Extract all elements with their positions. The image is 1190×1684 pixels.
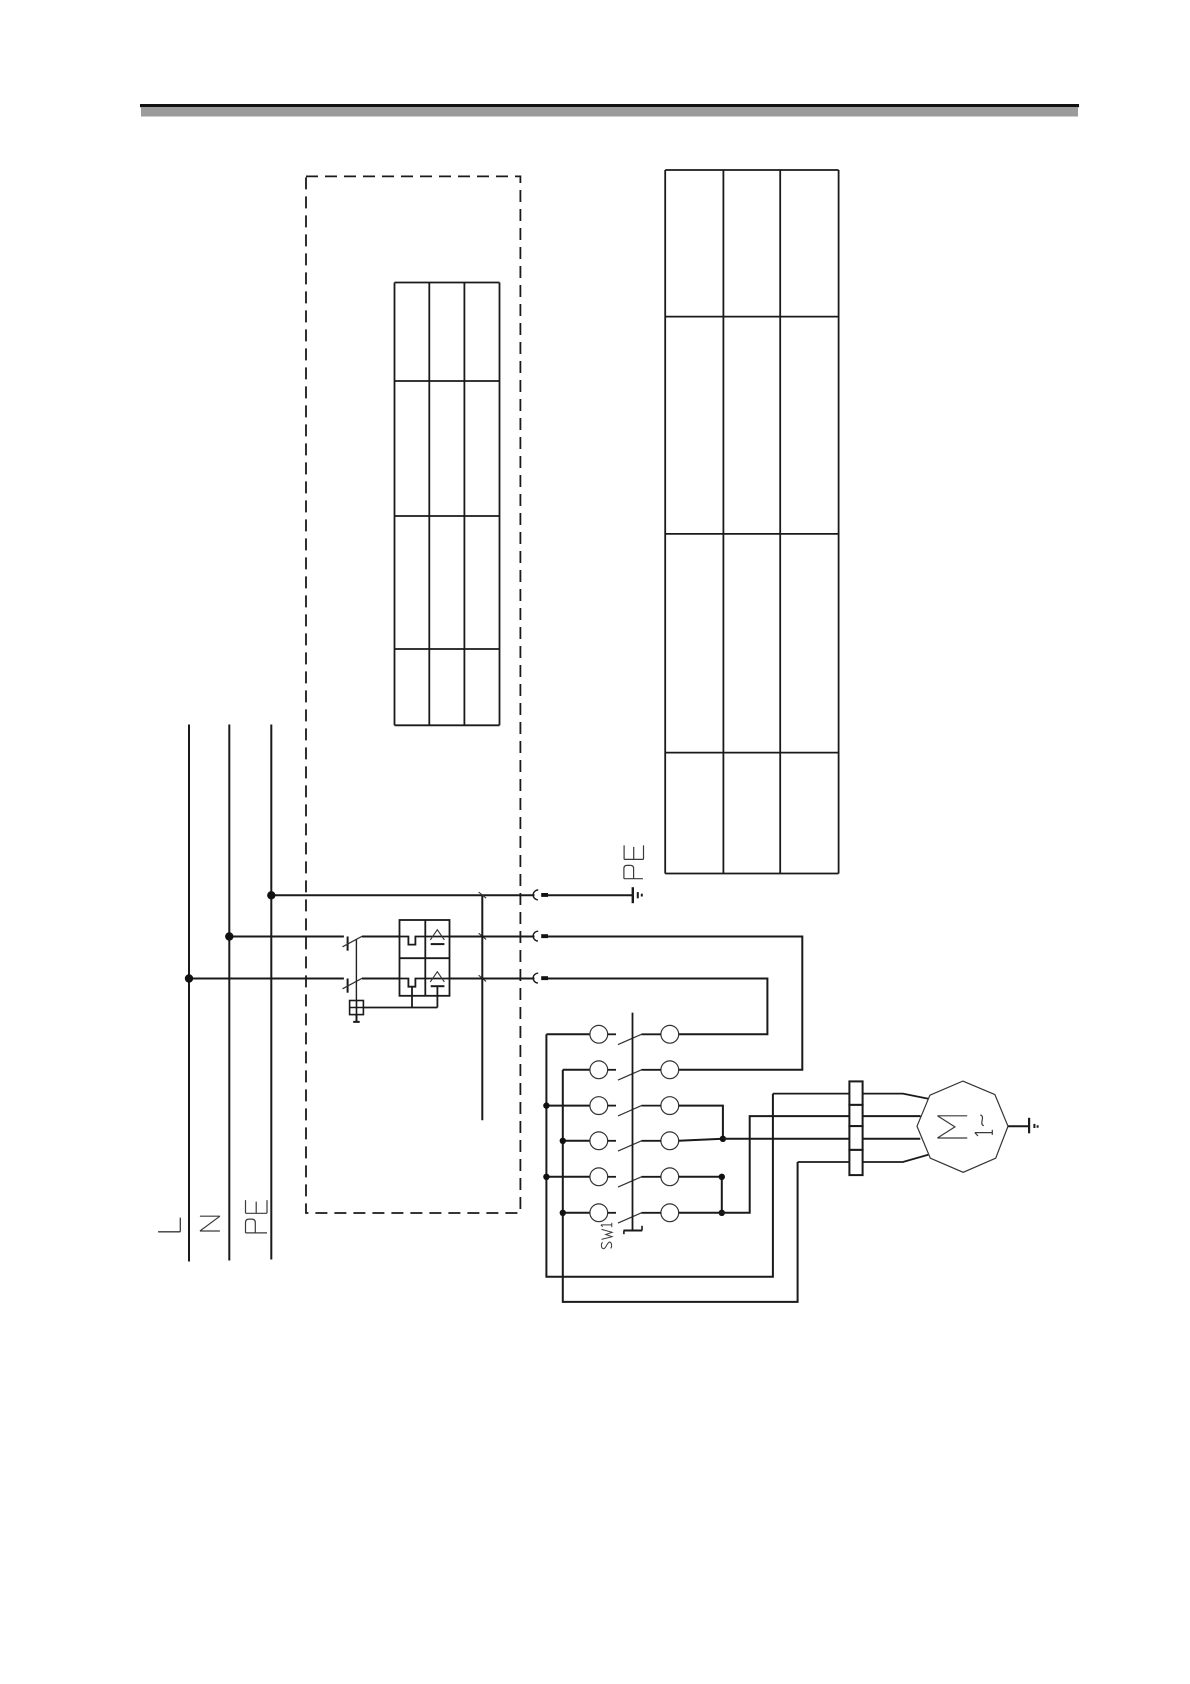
- label L: [158, 1218, 180, 1232]
- bus N: [228, 725, 230, 1261]
- label M: [937, 1116, 967, 1138]
- ground symbol PE: [633, 887, 642, 903]
- wire L through right cell: [425, 978, 449, 980]
- RCD sensing box: [350, 1001, 364, 1015]
- connector on PE wire: [533, 890, 548, 900]
- wire N contact to breaker: [362, 936, 400, 938]
- junction tick PE spur top: [479, 892, 487, 898]
- connector on N wire: [533, 931, 548, 941]
- switch contact L pole: [343, 978, 363, 992]
- label PE ground: [624, 845, 644, 878]
- junction tick N crossing: [479, 933, 487, 939]
- terminal table TB1 inside enclosure: [395, 283, 500, 726]
- SW1 row4 stub to junction: [679, 1139, 723, 1141]
- wire motor to ground: [1008, 1125, 1029, 1127]
- RCD box lower stem: [353, 1015, 360, 1022]
- SW1 second rail to wire D riser: [563, 1070, 798, 1302]
- wire N to SW1 row2: [548, 937, 802, 1070]
- junction dot N bus: [225, 932, 233, 940]
- breaker U1 outline: [400, 920, 450, 996]
- label PE bus: [246, 1200, 268, 1233]
- SW1 left stubs: [546, 1034, 590, 1213]
- ground symbol motor: [1029, 1118, 1038, 1134]
- trip wire: [363, 1007, 437, 1009]
- switch contact N pole: [343, 936, 363, 950]
- junction dot row6: [719, 1210, 725, 1216]
- SW1 pole 5 blade: [608, 1177, 661, 1187]
- SW1 rail junction dots: [543, 1102, 566, 1216]
- SW1 pole 3 blade: [608, 1106, 661, 1116]
- dashed enclosure boundary: [306, 176, 520, 1213]
- wire L from bus to contact: [189, 978, 344, 980]
- magnetic element L pole: [430, 972, 444, 987]
- SW1 left rail to wire A riser: [546, 1034, 773, 1276]
- label SW1: [601, 1223, 612, 1249]
- wire PE vertical spur: [481, 895, 483, 1120]
- junction tick L crossing: [479, 975, 487, 981]
- wire N through right cell: [425, 936, 449, 938]
- SW1 left contact circles: [590, 1025, 608, 1221]
- header rule: [140, 104, 1079, 117]
- junction dot row5: [719, 1174, 725, 1180]
- wire C to motor: [723, 1138, 920, 1140]
- SW1 row6 to wire B: [679, 1116, 921, 1213]
- wire L breaker to connector: [450, 978, 535, 980]
- junction dot PE bus: [267, 891, 275, 899]
- SW1 row3 to row4 link: [679, 1106, 723, 1139]
- SW1 right contact circles: [661, 1025, 679, 1221]
- bus PE: [270, 725, 272, 1260]
- terminal block X1: [849, 1081, 862, 1175]
- SW1 row5 to row6 link: [679, 1177, 722, 1213]
- SW1 pole 1 blade: [608, 1034, 661, 1044]
- trip stem right: [436, 986, 438, 1007]
- bus L: [188, 725, 190, 1262]
- SW1 pole 6 blade: [608, 1213, 661, 1223]
- terminal table TB2 right: [665, 170, 838, 874]
- wire A to motor: [773, 1094, 929, 1099]
- connector on L wire: [533, 973, 548, 983]
- wire PE horizontal: [271, 894, 632, 896]
- trip stem left: [411, 987, 413, 1008]
- wire N from bus to contact: [229, 936, 344, 938]
- junction dot L bus: [185, 974, 193, 982]
- thermal element L pole: [400, 979, 426, 987]
- SW1 pole 2 blade: [608, 1070, 661, 1080]
- wire N breaker to connector: [450, 936, 535, 938]
- label 1~: [975, 1115, 993, 1136]
- thermal element N pole: [400, 937, 426, 945]
- label N: [200, 1216, 220, 1231]
- wire D to motor: [798, 1155, 929, 1162]
- wire L to SW1 row1: [548, 979, 767, 1035]
- magnetic element N pole: [430, 930, 444, 944]
- wire L contact to breaker: [362, 978, 400, 980]
- junction dot wire C: [720, 1136, 726, 1142]
- SW1 pole 4 blade: [608, 1141, 661, 1151]
- breaker linkage: [355, 939, 357, 1000]
- SW1 operating linkage: [624, 1013, 643, 1235]
- motor M1 body: [917, 1081, 1008, 1172]
